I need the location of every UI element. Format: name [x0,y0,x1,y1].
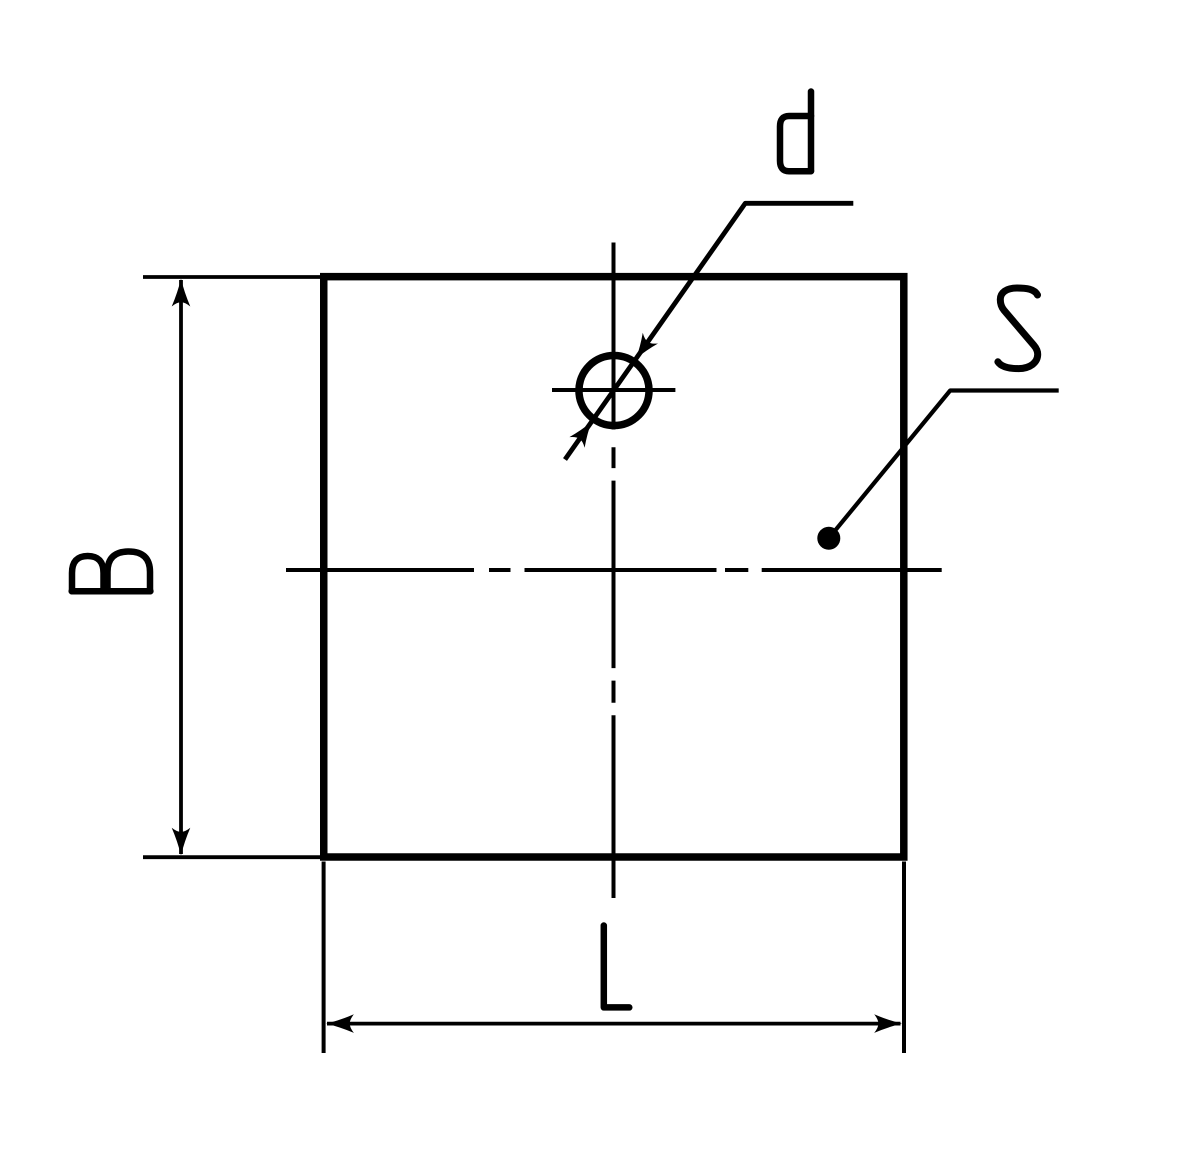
L left extension line [322,862,326,1054]
B bottom arrowhead [172,828,191,856]
label S [998,288,1038,369]
S leader line [829,391,1059,539]
horizontal centerline [286,568,942,572]
L right extension line [902,862,906,1054]
B dimension line [179,280,183,854]
label d [780,92,811,172]
d upper arrowhead [628,333,658,364]
B bottom extension line [143,855,322,859]
hole circle horizontal centerline [552,388,675,392]
B top extension line [143,275,322,279]
B top arrowhead [172,279,191,307]
label L [604,926,630,1008]
plate outline [324,277,904,857]
L left arrowhead [326,1014,354,1033]
d leader line [565,203,853,459]
label B (rotated) [72,552,151,592]
d lower arrowhead [569,417,599,448]
L dimension line [327,1022,901,1026]
L right arrowhead [874,1014,902,1033]
hole circle [579,355,649,425]
vertical centerline [612,243,616,899]
S dot [817,527,840,550]
